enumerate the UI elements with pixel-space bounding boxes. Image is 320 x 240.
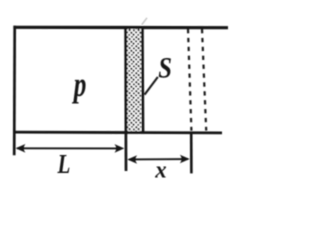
svg-text:p: p (71, 65, 86, 104)
dashed line (displaced piston right face) (202, 29, 206, 131)
cylinder top wall (13, 26, 228, 30)
dimension line L (17, 147, 122, 149)
leader line to S (145, 77, 158, 95)
svg-text:L: L (57, 149, 71, 179)
svg-text:S: S (158, 51, 172, 84)
arrowhead x right (180, 155, 190, 164)
cylinder left wall (13, 26, 16, 156)
extension line below wall at dashed position (190, 132, 193, 173)
piston stipple fill (127, 29, 141, 131)
cylinder bottom wall (13, 131, 222, 135)
arrowhead L left (16, 144, 26, 153)
dashed line (displaced piston left face) (188, 29, 191, 131)
scan artifact smudge (142, 18, 147, 25)
piston left edge + extension line (124, 27, 127, 171)
arrowhead x left (127, 155, 137, 164)
arrowhead L right (115, 144, 125, 153)
svg-text:x: x (154, 157, 167, 184)
piston right edge (141, 27, 144, 132)
dimension line x (129, 158, 188, 160)
